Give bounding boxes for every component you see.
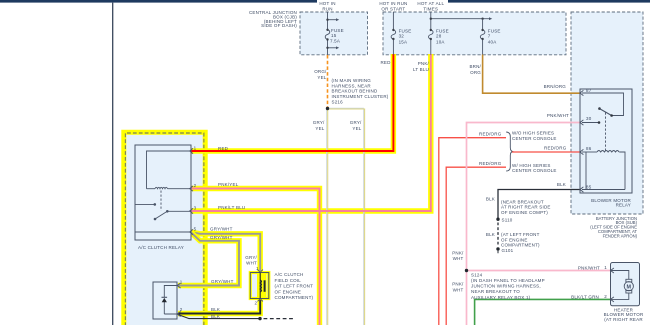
svg-text:2: 2 bbox=[604, 294, 607, 299]
svg-text:PNK/WHT: PNK/WHT bbox=[578, 266, 600, 271]
svg-text:NEAR BREAKOUT TO: NEAR BREAKOUT TO bbox=[471, 289, 520, 294]
label BLK/LT GRN at motor pin2 bbox=[571, 295, 599, 300]
wire: highlighted PNK/YEL from A/C relay pin2 down off-page bbox=[191, 189, 320, 325]
svg-text:WHT: WHT bbox=[453, 287, 464, 292]
svg-text:AT RIGHT REAR SIDE: AT RIGHT REAR SIDE bbox=[501, 205, 551, 210]
label RED/ORG merged bbox=[544, 146, 567, 151]
svg-text:(IN MAIN WIRING: (IN MAIN WIRING bbox=[332, 78, 372, 83]
central junction box CJB (fuse 15 enclosure) bbox=[300, 12, 368, 55]
label ORG/YEL bbox=[314, 69, 327, 80]
svg-text:RELAY: RELAY bbox=[616, 203, 631, 208]
svg-text:PNK/: PNK/ bbox=[452, 282, 464, 287]
left page boundary line bbox=[112, 3, 114, 325]
svg-text:(AT LEFT FRONT: (AT LEFT FRONT bbox=[501, 232, 540, 237]
svg-text:GRY/: GRY/ bbox=[313, 120, 325, 125]
label fuse 28 value bbox=[436, 29, 449, 45]
label w/ high series console bbox=[512, 163, 557, 173]
svg-text:BREAKOUT BEHIND: BREAKOUT BEHIND bbox=[332, 89, 378, 94]
svg-text:HARNESS, NEAR: HARNESS, NEAR bbox=[332, 83, 372, 88]
label BLK lower wire bbox=[211, 314, 220, 319]
blower relay coil bbox=[582, 151, 625, 190]
svg-text:WHT: WHT bbox=[246, 260, 257, 265]
svg-text:G101: G101 bbox=[502, 248, 514, 253]
blower motor relay box bbox=[580, 89, 632, 193]
wire: BLK from diode pin2 to splice bbox=[178, 315, 260, 319]
svg-text:RUN: RUN bbox=[322, 6, 332, 11]
svg-text:BLK: BLK bbox=[557, 182, 566, 187]
label BLK at S110 bbox=[486, 197, 495, 202]
wire: RED/ORG branch (w/o high series console) bbox=[439, 138, 506, 325]
wire: RED core over GRY/YEL crossings bbox=[310, 150, 393, 152]
svg-text:PNK/WHT: PNK/WHT bbox=[547, 113, 569, 118]
svg-text:COMPARTMENT): COMPARTMENT) bbox=[501, 243, 540, 248]
label HOT IN RUN OR START bbox=[379, 1, 407, 11]
svg-text:OR START: OR START bbox=[381, 6, 405, 11]
splice S110 bbox=[496, 218, 499, 221]
wire: GRY/YEL from splice S216 down off-page bbox=[327, 109, 328, 325]
svg-text:A/C CLUTCH RELAY: A/C CLUTCH RELAY bbox=[138, 245, 184, 250]
svg-text:GRY/WHT: GRY/WHT bbox=[210, 235, 233, 240]
splice on BLK wire bbox=[258, 317, 261, 320]
label BRN/ORG at relay pin87 bbox=[544, 84, 567, 89]
svg-text:5: 5 bbox=[194, 227, 197, 232]
A/C clutch relay coil bbox=[147, 151, 192, 189]
svg-text:28: 28 bbox=[436, 34, 442, 39]
svg-text:ORG/: ORG/ bbox=[314, 69, 327, 74]
fuse 15 bbox=[325, 12, 339, 55]
label GRY/WHT at pin5 upper bbox=[210, 226, 233, 231]
svg-text:BRN/: BRN/ bbox=[469, 64, 481, 69]
svg-text:7.5A: 7.5A bbox=[330, 39, 340, 44]
svg-text:(NEAR BREAKOUT: (NEAR BREAKOUT bbox=[501, 199, 544, 204]
svg-text:AUXILIARY RELAY BOX 1): AUXILIARY RELAY BOX 1) bbox=[471, 295, 531, 300]
label heater blower motor bbox=[604, 307, 644, 322]
A/C clutch relay box bbox=[135, 145, 191, 240]
label HOT IN RUN (fuse15) bbox=[319, 1, 335, 11]
svg-text:GRY/WHT: GRY/WHT bbox=[211, 279, 234, 284]
svg-text:GRY/WHT: GRY/WHT bbox=[210, 226, 233, 231]
label PNK/YEL at pin2 bbox=[218, 182, 239, 187]
svg-text:SIDE OF DASH): SIDE OF DASH) bbox=[261, 23, 297, 28]
label RED/ORG branch2 bbox=[479, 161, 502, 166]
blower relay pin arrows and numbers bbox=[580, 90, 583, 192]
svg-text:WHT: WHT bbox=[453, 256, 464, 261]
svg-text:1: 1 bbox=[256, 266, 259, 271]
svg-text:PNK/: PNK/ bbox=[452, 250, 464, 255]
svg-text:RED/ORG: RED/ORG bbox=[479, 132, 502, 137]
wire: PNK/WHT relay pin30 down through S124, branch to motor pin1 bbox=[467, 123, 611, 325]
svg-text:40A: 40A bbox=[488, 39, 497, 44]
svg-text:OF ENGINE: OF ENGINE bbox=[501, 237, 528, 242]
wire: BLK dashed continuation off-page bbox=[264, 318, 295, 320]
svg-text:1: 1 bbox=[194, 146, 197, 151]
svg-text:S124: S124 bbox=[471, 273, 483, 278]
svg-text:1: 1 bbox=[180, 279, 183, 284]
label GRY/WHT at pin5 lower bbox=[210, 235, 233, 240]
fuse 28 with branch to fuse 7 bbox=[429, 12, 493, 55]
svg-text:BLK: BLK bbox=[486, 232, 495, 237]
A/C clutch field coil winding bbox=[258, 270, 265, 302]
svg-text:S216: S216 bbox=[332, 99, 344, 104]
svg-text:85: 85 bbox=[586, 184, 592, 189]
label RED below fuse 32 bbox=[380, 60, 391, 65]
A/C clutch relay switch bbox=[135, 191, 191, 233]
svg-text:INSTRUMENT CLUSTER): INSTRUMENT CLUSTER) bbox=[332, 94, 389, 99]
label GRY/YEL right bbox=[350, 120, 362, 131]
svg-text:LT BLU: LT BLU bbox=[413, 67, 429, 72]
label RED/ORG branch1 bbox=[479, 132, 502, 137]
svg-text:PNK/: PNK/ bbox=[418, 61, 430, 66]
battery junction box bbox=[571, 12, 643, 214]
top border bar left segment bbox=[0, 0, 317, 3]
A/C clutch relay junction box (highlighted) bbox=[124, 132, 205, 325]
svg-text:3: 3 bbox=[194, 206, 197, 211]
label battery junction box bbox=[590, 216, 637, 239]
svg-text:30: 30 bbox=[586, 116, 592, 121]
svg-text:2: 2 bbox=[194, 183, 197, 188]
svg-text:15A: 15A bbox=[399, 39, 408, 44]
svg-text:YEL: YEL bbox=[352, 126, 361, 131]
svg-text:CENTER CONSOLE: CENTER CONSOLE bbox=[512, 136, 557, 141]
label PNK/WHT at motor pin1 bbox=[578, 266, 600, 271]
svg-text:(AT RIGHT REAR: (AT RIGHT REAR bbox=[604, 317, 643, 322]
svg-text:BRN/ORG: BRN/ORG bbox=[544, 84, 567, 89]
svg-text:M: M bbox=[627, 284, 632, 290]
fuse panel box (fuses 32,28,7) bbox=[383, 12, 566, 55]
svg-text:RED: RED bbox=[380, 60, 391, 65]
label BLK at G101 bbox=[486, 232, 495, 237]
wire: highlighted GRY/WHT relay pin5 to field coil pin1 bbox=[191, 232, 260, 272]
svg-text:JUNCTION WIRING HARNESS,: JUNCTION WIRING HARNESS, bbox=[471, 284, 541, 289]
svg-text:86: 86 bbox=[586, 146, 592, 151]
wire: highlighted PNK/LT BLU fuse28 to A/C relay pin3 bbox=[191, 54, 431, 211]
svg-text:YEL: YEL bbox=[315, 126, 324, 131]
label PNK/WHT at relay pin30 bbox=[547, 113, 569, 118]
top border bar right segment bbox=[448, 0, 650, 3]
svg-text:87: 87 bbox=[586, 88, 592, 93]
svg-text:OF ENGINE: OF ENGINE bbox=[275, 289, 302, 294]
label fuse 7 value bbox=[488, 29, 501, 45]
label S110 text bbox=[501, 199, 551, 222]
label BRN/ORG below fuse 7 bbox=[469, 64, 481, 75]
svg-text:7: 7 bbox=[488, 34, 491, 39]
wire: GRY/YEL second branch from S216 bbox=[328, 108, 365, 325]
svg-text:TIMES: TIMES bbox=[423, 6, 438, 11]
svg-text:S110: S110 bbox=[502, 217, 513, 222]
svg-text:RED/ORG: RED/ORG bbox=[544, 146, 567, 151]
wire: BLK relay pin85 to S110 bbox=[498, 190, 580, 220]
blower relay switch bbox=[582, 93, 624, 152]
svg-text:CENTER CONSOLE: CENTER CONSOLE bbox=[512, 168, 557, 173]
svg-text:BLK: BLK bbox=[486, 197, 495, 202]
svg-text:BLK: BLK bbox=[211, 307, 220, 312]
heater blower motor box bbox=[611, 263, 640, 306]
label RED at relay pin1 bbox=[218, 146, 229, 151]
label G101 text bbox=[501, 232, 540, 253]
wire: highlighted GRY/WHT relay pin5 to diode pin1 bbox=[178, 232, 239, 285]
svg-text:RED/ORG: RED/ORG bbox=[479, 161, 502, 166]
wire: highlighted RED fuse32 to A/C relay pin1 (yellow underlay) bbox=[191, 54, 393, 151]
diode box bbox=[153, 282, 177, 319]
svg-text:FIELD COIL: FIELD COIL bbox=[275, 278, 302, 283]
wire: PNK/LT BLU core over GRY/YEL crossings bbox=[310, 210, 431, 212]
label PNK/LT BLU at pin3 bbox=[218, 205, 245, 210]
label A/C clutch field coil text bbox=[275, 272, 314, 300]
diode bbox=[162, 283, 181, 317]
svg-text:YEL: YEL bbox=[317, 75, 326, 80]
svg-text:ORG: ORG bbox=[470, 70, 481, 75]
svg-text:GRY/: GRY/ bbox=[350, 120, 362, 125]
svg-text:1: 1 bbox=[604, 265, 607, 270]
wire: RED/ORG merged to relay pin86 bbox=[512, 151, 580, 153]
wire: BLK/LT GRN to motor pin2 bbox=[475, 299, 611, 325]
splice S216 bbox=[326, 107, 329, 110]
svg-text:(IN DASH PANEL TO HEADLAMP: (IN DASH PANEL TO HEADLAMP bbox=[471, 278, 545, 283]
ground G101 bbox=[496, 247, 499, 253]
svg-text:COMPARTMENT): COMPARTMENT) bbox=[275, 295, 314, 300]
fuse 32 bbox=[391, 12, 396, 55]
label PNK/LT BLU below fuse 28 bbox=[413, 61, 430, 72]
label blower motor relay bbox=[591, 198, 631, 208]
wire: RED/ORG branch (w/ high series console) bbox=[446, 167, 506, 325]
label BLK at relay pin85 bbox=[557, 182, 566, 187]
svg-text:W/ HIGH SERIES: W/ HIGH SERIES bbox=[512, 163, 551, 168]
label GRY/WHT vertical wire bbox=[245, 255, 257, 266]
label BLK highlighted wire bbox=[211, 307, 220, 312]
label PNK/WHT below S124 bbox=[452, 282, 464, 293]
svg-text:2: 2 bbox=[180, 307, 183, 312]
label central junction box bbox=[249, 10, 297, 28]
svg-text:FENDER APRON): FENDER APRON) bbox=[603, 233, 638, 238]
label HOT AT ALL TIMES bbox=[417, 1, 444, 11]
svg-text:W/O HIGH SERIES: W/O HIGH SERIES bbox=[512, 131, 554, 136]
A/C relay pin arrows and numbers bbox=[190, 148, 193, 234]
svg-text:BLK/LT GRN: BLK/LT GRN bbox=[571, 295, 599, 300]
heater blower motor symbol bbox=[611, 268, 634, 302]
A/C clutch field coil box (highlighted) bbox=[250, 273, 268, 299]
svg-text:15: 15 bbox=[331, 33, 337, 38]
svg-text:10A: 10A bbox=[436, 39, 445, 44]
label w/o high series console bbox=[512, 131, 557, 141]
wire: highlighted BLK field coil pin2 to diode pin2 bbox=[178, 299, 260, 314]
svg-text:GRY/: GRY/ bbox=[245, 255, 257, 260]
svg-text:2: 2 bbox=[254, 301, 257, 306]
svg-text:RED: RED bbox=[218, 146, 229, 151]
label fuse 15 value bbox=[330, 28, 344, 44]
label GRY/WHT diode wire bbox=[211, 279, 234, 284]
svg-text:A/C CLUTCH: A/C CLUTCH bbox=[275, 272, 304, 277]
label A/C CLUTCH RELAY bbox=[138, 245, 184, 250]
label fuse 32 value bbox=[399, 29, 412, 45]
label PNK/WHT above S124 bbox=[452, 250, 464, 261]
svg-text:OF ENGINE COMPT): OF ENGINE COMPT) bbox=[501, 210, 548, 215]
splice S124 bbox=[465, 269, 468, 272]
brace joining RED/ORG branches bbox=[506, 132, 513, 171]
wire: BRN/ORG fuse7 to blower relay pin87 bbox=[483, 55, 580, 94]
label GRY/YEL left bbox=[313, 120, 325, 131]
fuse 7 bbox=[480, 19, 485, 55]
svg-text:BLK: BLK bbox=[211, 314, 220, 319]
label splice S216 text bbox=[332, 78, 389, 104]
svg-text:32: 32 bbox=[399, 34, 405, 39]
label splice S124 text bbox=[471, 273, 545, 300]
svg-text:PNK/LT BLU: PNK/LT BLU bbox=[218, 205, 245, 210]
svg-text:PNK/YEL: PNK/YEL bbox=[218, 182, 239, 187]
svg-text:(AT LEFT FRONT: (AT LEFT FRONT bbox=[275, 284, 314, 289]
wire: ORG/YEL dashed below fuse 15 bbox=[327, 55, 329, 109]
wire: BLK dashed S110 to G101 bbox=[497, 223, 499, 247]
